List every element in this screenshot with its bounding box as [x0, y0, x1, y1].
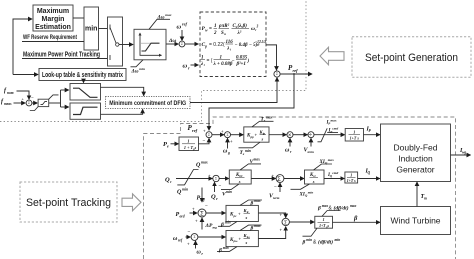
svg-text:Margin: Margin — [42, 16, 65, 23]
svg-text:wg: wg — [462, 151, 466, 155]
label+wire: omega ref — [177, 22, 188, 41]
svg-text:β: β — [317, 205, 321, 211]
svg-text:β: β — [218, 247, 222, 253]
svg-text:Doubly-Fed: Doubly-Fed — [394, 143, 438, 153]
svg-text:meas: meas — [4, 102, 12, 106]
block: Wind Turbine — [381, 207, 451, 235]
svg-text:Δω: Δω — [168, 38, 176, 44]
svg-text:cmd: cmd — [332, 171, 338, 175]
wire: upper PI to pitch summing — [258, 213, 285, 218]
svg-text:−: − — [188, 231, 191, 236]
svg-text:+: + — [255, 133, 258, 138]
svg-text:max: max — [331, 119, 337, 123]
svg-text:3: 3 — [256, 24, 259, 28]
label+wire: WF Reserve Requirement — [22, 34, 84, 42]
svg-text:e: e — [167, 144, 169, 149]
svg-text:+: + — [221, 129, 224, 134]
svg-text:min: min — [308, 191, 314, 195]
sum junction: with speed term — [221, 129, 233, 144]
sum junction: speed reference — [179, 41, 185, 47]
wire: deadband output split to droop curves — [49, 90, 69, 107]
svg-text:Maximum: Maximum — [37, 8, 69, 15]
svg-text:i: i — [230, 48, 231, 52]
wire: feed to look-up table — [13, 74, 38, 76]
callout label: delta-omega max — [149, 13, 172, 30]
callout label: beta min and rate limit — [302, 228, 341, 245]
svg-text:1+T s: 1+T s — [347, 179, 356, 183]
svg-text:β³+1: β³+1 — [236, 61, 246, 67]
svg-text:min: min — [225, 221, 231, 225]
block: torque PI controller Kpp+Kip/s — [244, 127, 269, 142]
sum junction: power error — [206, 132, 212, 138]
block: frequency deviation limit curve — [134, 29, 166, 60]
label+wire: P_ord input — [176, 205, 209, 224]
svg-text:s: s — [245, 240, 248, 245]
callout label: beta max (lower PI) — [240, 224, 262, 232]
block: voltage regulator K_vi/s — [305, 170, 325, 184]
callout label: XIQ min — [291, 184, 314, 198]
svg-text:nom: nom — [7, 91, 14, 95]
sum junction: frequency error — [26, 100, 32, 106]
svg-text:= 0.22(: = 0.22( — [209, 42, 225, 48]
wire: filter up into sum1 — [199, 129, 210, 145]
svg-text:cmd: cmd — [332, 127, 338, 131]
svg-text:+: + — [272, 174, 275, 179]
svg-text:ω: ω — [183, 63, 188, 70]
svg-text:s: s — [312, 179, 315, 184]
svg-text:max: max — [165, 13, 171, 17]
wire: P_ref branch down to tracking section — [209, 74, 294, 130]
svg-text:mg: mg — [213, 226, 218, 230]
svg-text:+: + — [203, 129, 206, 134]
svg-text:min: min — [139, 67, 145, 71]
block: Doubly-Fed Induction Generator — [381, 124, 451, 182]
svg-text:β: β — [250, 226, 254, 232]
label+wire: omega r into multiplier — [285, 138, 292, 154]
svg-text:+: + — [239, 237, 242, 242]
svg-text:1: 1 — [187, 139, 189, 144]
svg-text:+: + — [280, 228, 283, 233]
block: deadband — [30, 95, 59, 111]
svg-text:+: + — [280, 213, 283, 218]
svg-text:−: − — [219, 185, 222, 190]
equation text line 3: lambda_i formula — [200, 55, 250, 67]
wire: divider to current filter with limiter — [314, 134, 345, 136]
wire: lower PI to pitch summing — [258, 227, 285, 239]
section divider dotted line — [0, 0, 306, 122]
block arrow: points left to set-point generation part — [320, 47, 344, 65]
big dashed box around set-point tracking and plant — [144, 117, 456, 259]
divide junction — [308, 132, 314, 140]
svg-text:pω: pω — [233, 239, 239, 243]
svg-text:(dβ/dt): (dβ/dt) — [318, 239, 333, 246]
block: pitch actuator 1/(1+Tp s) — [315, 216, 333, 229]
block: current filter 1/(1+T1 s) — [345, 129, 363, 142]
svg-text:Σ: Σ — [277, 177, 281, 183]
svg-text:+: + — [230, 139, 233, 144]
svg-text:Σ: Σ — [276, 72, 278, 76]
wire: speed error to pitch PI — [198, 236, 226, 238]
svg-text:Δω: Δω — [157, 14, 165, 20]
label+wire: omega_r into speed error sum — [196, 241, 204, 256]
svg-text:max: max — [322, 204, 329, 208]
wire+label: I_P into DFIG — [364, 127, 380, 135]
wire: sum to deadband — [32, 102, 37, 104]
wire: upper curve to minimum commitment — [101, 87, 144, 95]
block: look-up table & sensitivity matrix — [39, 69, 126, 81]
svg-text:Set-point Tracking: Set-point Tracking — [26, 197, 111, 209]
svg-text:ω: ω — [177, 24, 182, 31]
svg-text:λ + 0.08β: λ + 0.08β — [213, 62, 233, 67]
sum junction: voltage error — [272, 174, 284, 191]
svg-text:pp: pp — [250, 135, 255, 139]
svg-text:Σ: Σ — [28, 101, 30, 105]
svg-text:min: min — [85, 26, 97, 33]
svg-text:β: β — [220, 222, 224, 228]
svg-text:÷: ÷ — [309, 132, 313, 139]
wire: multiplier to divider — [293, 134, 307, 136]
wire: sum to KQi block — [219, 178, 229, 180]
wire: min to switch — [99, 28, 111, 30]
svg-text:min: min — [245, 149, 251, 153]
block: power filter 1/(1+Tp s) — [179, 137, 199, 151]
label: P_ref (tracking section) — [188, 124, 198, 133]
equation box (dashed): wind power equations — [200, 12, 266, 77]
sum junction: speed error (pitch) — [191, 234, 198, 241]
svg-text:= (: = ( — [207, 58, 213, 64]
box: Set-point Generation label — [352, 37, 471, 77]
label+wire: Q_e into sum — [211, 182, 218, 201]
svg-text:Σ: Σ — [284, 220, 288, 226]
svg-text:1: 1 — [353, 130, 355, 135]
wire: MME to min — [73, 17, 84, 19]
svg-text:max: max — [254, 224, 261, 228]
svg-text:min: min — [306, 238, 312, 242]
svg-text:max: max — [201, 161, 208, 165]
wire: pitch sum to pitch compensation PI — [206, 212, 225, 214]
callout label: Te min — [239, 142, 261, 156]
svg-text:λ³: λ³ — [237, 30, 242, 36]
svg-text:n: n — [224, 32, 226, 36]
sum junction: reactive power error — [208, 174, 222, 190]
limiter mark on Qc wire + labels Qmax Qmin — [177, 161, 208, 196]
callout label: beta min (upper PI) — [218, 221, 237, 229]
callout label: beta max and rate limit — [317, 204, 357, 217]
svg-text:max: max — [266, 115, 273, 119]
wire: switch to saturation block — [119, 44, 133, 46]
sum junction: P_ref — [274, 71, 280, 81]
svg-text:+: + — [208, 174, 211, 179]
label+wire: omega g into sum2 — [223, 138, 230, 155]
svg-text:max: max — [328, 158, 334, 162]
sum junction: pitch compensation — [198, 209, 206, 217]
svg-text:1: 1 — [323, 217, 325, 222]
block: pitch compensation PI Kpc+Kic/s — [226, 205, 258, 221]
callout label: beta min (lower PI) — [217, 246, 237, 254]
wire+label: IQ cmd to filter — [324, 171, 344, 179]
label+wire: V_term into divider — [304, 138, 315, 154]
svg-text:1 + T: 1 + T — [184, 145, 194, 150]
svg-text:+: + — [195, 219, 198, 224]
wire+label: T_m from wind turbine to DFIG — [417, 182, 427, 207]
wire: equation box output down to P_ref sum — [266, 45, 277, 70]
svg-text:term: term — [308, 150, 315, 154]
svg-text:−: − — [31, 95, 34, 100]
svg-text:Look-up table & sensitivity ma: Look-up table & sensitivity matrix — [42, 72, 123, 79]
svg-text:Σ: Σ — [181, 42, 183, 46]
svg-text:min: min — [335, 238, 341, 242]
callout label: V min — [221, 184, 239, 197]
svg-text:Σ: Σ — [208, 133, 210, 137]
svg-text:Δω: Δω — [131, 68, 139, 74]
svg-text:i: i — [204, 63, 205, 67]
svg-text:Wind Turbine: Wind Turbine — [390, 216, 440, 226]
wire: pitch sum to pitch actuator — [289, 221, 314, 223]
svg-text:p: p — [204, 45, 207, 49]
svg-text:Σ: Σ — [226, 133, 228, 137]
svg-text:): ) — [247, 59, 250, 64]
sum junction: total pitch command — [282, 218, 289, 226]
label+wire: f_nom input — [4, 88, 29, 99]
label+wire: P_ref into pitch sum — [197, 188, 206, 203]
svg-text:Set-point Generation: Set-point Generation — [365, 52, 458, 64]
equation text line 2: Cp formula — [202, 40, 267, 52]
label+wire: Maximum Power Point Tracking — [22, 52, 108, 59]
svg-text:Generator: Generator — [396, 165, 434, 175]
svg-text:β: β — [302, 240, 306, 246]
svg-text:term: term — [273, 196, 280, 200]
svg-text:ord: ord — [180, 215, 185, 219]
svg-text:pc: pc — [233, 214, 238, 218]
svg-text:+: + — [187, 242, 190, 247]
svg-text:ref: ref — [182, 22, 187, 27]
callout label: beta max (upper PI) — [240, 199, 262, 207]
svg-text:−: − — [203, 139, 206, 144]
block: droop curve upper — [70, 84, 101, 101]
block: IQ filter 1/(1+T2 s) — [345, 172, 358, 183]
multiply junction — [287, 132, 293, 139]
label+wire: V_term into voltage sum — [269, 183, 280, 200]
svg-text:Q: Q — [368, 171, 371, 175]
wire: lower curve to minimum commitment — [101, 109, 143, 114]
wire: minimum commitment output to P_ref sum — [190, 78, 277, 103]
svg-text:−: − — [274, 185, 277, 190]
svg-text:1+T s: 1+T s — [350, 136, 360, 141]
svg-text:min: min — [223, 246, 229, 250]
wire+label: I_wg output — [451, 148, 471, 155]
svg-text:Minimum commitment of DFIG: Minimum commitment of DFIG — [109, 100, 186, 107]
svg-text:s: s — [194, 145, 197, 150]
svg-text:s: s — [261, 137, 264, 142]
svg-text:Estimation: Estimation — [35, 24, 71, 31]
box: Minimum commitment of DFIG (dotted) — [105, 97, 190, 109]
svg-text:m: m — [424, 197, 427, 201]
wire+label: P_ref output — [280, 64, 312, 75]
wire: left vertical feed — [13, 19, 32, 75]
callout label: V max — [240, 157, 261, 170]
svg-text:g: g — [227, 151, 230, 155]
label+wire: omega_ref input — [173, 231, 191, 247]
label+wire: P_e input — [163, 141, 178, 149]
svg-text:min: min — [226, 190, 232, 194]
svg-text:min: min — [182, 188, 188, 192]
block: pitch control PI Kpw+Kiw/s — [226, 231, 258, 247]
svg-text:1+T: 1+T — [319, 224, 326, 228]
switch box — [108, 17, 123, 66]
label+wire: Q_c input — [165, 177, 212, 185]
svg-text:β: β — [353, 215, 358, 222]
block: reactive PI K_Qi/s — [229, 170, 251, 184]
svg-text:=: = — [209, 26, 212, 32]
svg-text:(dβ/dt): (dβ/dt) — [334, 204, 349, 211]
svg-text:max: max — [350, 204, 357, 208]
block arrow: points right to set-point tracking part — [122, 194, 141, 211]
svg-text:2: 2 — [213, 31, 217, 36]
svg-text:s: s — [238, 179, 241, 184]
box: Set-point Tracking label — [20, 182, 117, 222]
svg-text:−: − — [232, 59, 235, 64]
callout label: Te max — [252, 115, 274, 127]
svg-text:max: max — [254, 157, 261, 161]
svg-text:×: × — [288, 133, 292, 139]
equation text line 1: Pw formula — [202, 23, 259, 36]
label+wire: omega r into equation box — [183, 63, 199, 71]
svg-text:β: β — [250, 201, 254, 207]
label+wire: f_meas input — [1, 95, 34, 106]
svg-text:WF Reserve Requirement: WF Reserve Requirement — [23, 34, 77, 41]
svg-text:+: + — [238, 212, 241, 217]
block: droop curve lower — [70, 103, 101, 119]
svg-text:−: − — [205, 205, 208, 210]
wire+label: I_Q into DFIG — [358, 169, 380, 179]
svg-text:Σ: Σ — [193, 235, 195, 239]
limiter mark + labels IP max / IP cmd — [318, 119, 339, 142]
wire: sum1 to sum2 — [212, 134, 224, 136]
label+wire: delta P_mg into pitch sum — [202, 218, 217, 230]
svg-text:Σ: Σ — [215, 177, 217, 181]
callout label: delta-omega min — [131, 60, 145, 75]
wire: PI to multiplier — [269, 134, 286, 136]
svg-text:Σ: Σ — [200, 211, 204, 217]
svg-text:1: 1 — [350, 173, 352, 178]
wire: sum2 to PI torque controller — [231, 134, 244, 136]
svg-text:Maximum Power Point Tracking: Maximum Power Point Tracking — [23, 52, 100, 59]
block: Maximum Margin Estimation — [33, 5, 73, 31]
wire: saturation block to sum, label delta-omega — [166, 38, 178, 44]
callout label: XIQ max — [314, 158, 335, 170]
svg-text:Induction: Induction — [398, 154, 433, 164]
block: min — [84, 7, 99, 50]
svg-text:ref: ref — [192, 128, 198, 133]
wire: voltage sum to KV block — [284, 178, 304, 180]
svg-text:ref: ref — [293, 68, 299, 73]
svg-text:+: + — [192, 207, 195, 212]
svg-text:s: s — [245, 215, 248, 220]
svg-text:max: max — [254, 199, 261, 203]
wire: KQi to voltage sum — [251, 178, 276, 180]
wire+label: beta to wind turbine — [333, 215, 380, 222]
wire: sum to equation box — [185, 43, 199, 45]
wire: look-up table down to droop curve block — [83, 81, 85, 83]
